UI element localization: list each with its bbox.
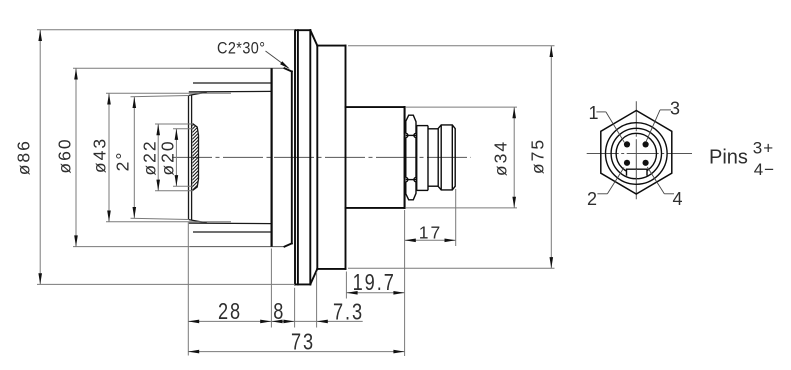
flange chamfer bottom xyxy=(310,269,317,285)
svg-text:ø60: ø60 xyxy=(55,137,75,173)
leader pin1 xyxy=(588,103,624,143)
svg-text:ø20: ø20 xyxy=(158,139,178,175)
dimension 19.7 xyxy=(346,270,404,296)
bore Ø50 line top xyxy=(193,82,272,84)
bore 2deg taper bottom xyxy=(189,220,207,223)
connector nut xyxy=(404,115,418,200)
chamfer C2 bottom xyxy=(285,243,292,246)
svg-text:1: 1 xyxy=(588,103,598,123)
bore 2deg taper top xyxy=(189,92,207,95)
extension line x346.4 xyxy=(345,272,347,299)
connector circle outer xyxy=(606,123,668,185)
dimension 2deg taper xyxy=(113,96,189,220)
connector circle inner xyxy=(616,133,656,173)
Ø75 right face xyxy=(345,46,347,269)
chamfer C2 top xyxy=(285,68,292,71)
keyway xyxy=(627,169,648,176)
bore taper line top xyxy=(189,90,272,93)
extension line x404.6 xyxy=(404,210,406,356)
svg-text:73: 73 xyxy=(291,329,315,355)
svg-text:3: 3 xyxy=(670,99,680,119)
pin 2 xyxy=(624,160,630,166)
svg-text:8: 8 xyxy=(273,299,285,325)
leader pin3 xyxy=(646,99,680,143)
dimension 28 xyxy=(188,299,271,325)
svg-text:ø43: ø43 xyxy=(90,137,110,173)
flange chamfer top xyxy=(310,30,317,45)
svg-text:ø75: ø75 xyxy=(528,138,548,174)
bore Ø50 line bottom xyxy=(193,231,272,233)
leader pin2 xyxy=(587,168,624,209)
flange front face xyxy=(294,30,296,284)
svg-text:ø34: ø34 xyxy=(491,140,511,176)
extension line x271.4 xyxy=(270,249,272,328)
pin 4 xyxy=(643,160,649,166)
svg-text:4−: 4− xyxy=(754,160,775,179)
flange lip line xyxy=(297,30,299,284)
svg-text:7.3: 7.3 xyxy=(333,299,364,325)
Ø75 bottom edge xyxy=(317,268,345,270)
extension line x455.7 xyxy=(455,189,457,246)
svg-text:28: 28 xyxy=(218,299,242,325)
bore end face xyxy=(271,68,273,246)
chamfer note C2*30 xyxy=(217,39,290,68)
extension line x294.6 xyxy=(294,288,296,328)
connector groove xyxy=(428,129,438,186)
diaphragm hatch strip xyxy=(188,116,202,205)
dimension Ø20 xyxy=(158,129,193,187)
centerline axis xyxy=(172,156,471,158)
dimension 8 xyxy=(271,299,294,325)
svg-text:Pins: Pins xyxy=(709,147,748,169)
dimension 73 xyxy=(188,329,405,355)
connector circle middle xyxy=(611,128,661,178)
extension line x188 xyxy=(187,222,189,356)
body Ø60 bottom edge xyxy=(190,246,285,248)
membrane front wall xyxy=(188,95,190,220)
dimension Ø75 xyxy=(348,46,555,268)
dimension Ø43 xyxy=(90,93,232,221)
svg-text:ø22: ø22 xyxy=(140,139,160,175)
extension line x316.6 xyxy=(316,272,318,328)
Ø34 top edge xyxy=(346,106,405,108)
leader pin4 xyxy=(647,167,682,209)
connector face: centerline vertical xyxy=(635,101,637,199)
bore taper line bottom xyxy=(189,222,272,225)
dimension Ø60 xyxy=(55,68,191,246)
flange top edge xyxy=(295,29,310,31)
svg-text:C2*30°: C2*30° xyxy=(217,39,265,57)
svg-text:19.7: 19.7 xyxy=(353,270,396,296)
connector face: centerline horizontal xyxy=(587,153,692,155)
dimension 7.3 xyxy=(295,299,364,325)
Ø34 bottom edge xyxy=(346,207,405,209)
svg-text:2°: 2° xyxy=(113,151,133,172)
svg-text:4: 4 xyxy=(672,189,682,209)
svg-text:17: 17 xyxy=(419,222,442,242)
svg-text:3+: 3+ xyxy=(753,138,774,157)
Ø75 front line xyxy=(316,46,318,269)
pins label xyxy=(709,138,775,179)
dimension Ø86 xyxy=(14,30,296,285)
connector end knob xyxy=(438,125,455,190)
body Ø60 top edge xyxy=(190,67,285,69)
flange bottom edge xyxy=(295,283,310,285)
dimension Ø22 xyxy=(140,124,194,191)
body front face xyxy=(291,72,293,244)
connector hexagon xyxy=(601,111,672,195)
svg-text:ø86: ø86 xyxy=(14,139,34,175)
connector ring band xyxy=(417,126,428,191)
redraw faces over notches xyxy=(404,107,406,208)
flange back line xyxy=(309,30,311,284)
dimension Ø34 xyxy=(406,107,517,208)
dimension 17 xyxy=(405,222,456,242)
Ø34 right face xyxy=(404,107,406,208)
pin 1 xyxy=(624,141,630,147)
svg-text:2: 2 xyxy=(587,189,597,209)
Ø75 top edge xyxy=(317,45,345,47)
membrane inner wall xyxy=(191,95,193,220)
pin 3 xyxy=(643,141,649,147)
